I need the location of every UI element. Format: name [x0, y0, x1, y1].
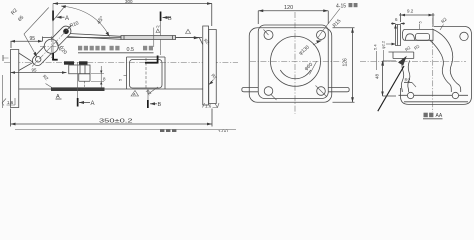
svg-text:5.4: 5.4: [373, 44, 378, 50]
svg-text:A: A: [133, 92, 136, 97]
svg-text:B: B: [158, 102, 162, 108]
svg-text:R2: R2: [405, 78, 411, 83]
svg-text:φ2.2: φ2.2: [381, 40, 386, 49]
svg-text:A: A: [65, 16, 69, 22]
svg-text:9.2: 9.2: [407, 9, 414, 14]
svg-text:120: 120: [284, 5, 293, 11]
svg-text:1.6: 1.6: [205, 104, 212, 109]
svg-text:300: 300: [125, 0, 133, 4]
svg-text:95: 95: [32, 68, 38, 73]
svg-text:B: B: [168, 16, 172, 22]
svg-text:126: 126: [343, 58, 349, 67]
svg-text:95: 95: [30, 36, 36, 42]
svg-text:0.5: 0.5: [127, 47, 135, 53]
svg-text:48: 48: [375, 73, 380, 79]
svg-text:1.6: 1.6: [7, 100, 14, 105]
svg-text:A: A: [91, 101, 95, 107]
svg-text:AA: AA: [436, 113, 443, 119]
svg-text:4-15: 4-15: [336, 4, 346, 10]
svg-text:1-(A): 1-(A): [218, 129, 229, 132]
svg-text:350±0.2: 350±0.2: [99, 119, 133, 125]
